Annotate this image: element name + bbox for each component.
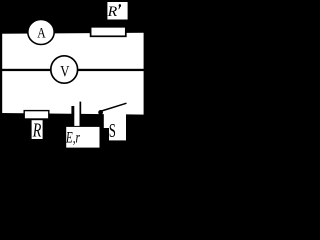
svg-text:R: R xyxy=(107,4,118,20)
wire: left vertical xyxy=(0,30,2,115)
battery E,r label box xyxy=(66,127,99,148)
svg-text:V: V xyxy=(60,63,70,80)
white figure background xyxy=(0,0,146,150)
switch S label box xyxy=(109,122,126,140)
switch lever xyxy=(100,103,126,111)
resistor R' body (top right, on top wire) xyxy=(91,27,126,37)
svg-text:A: A xyxy=(37,26,46,42)
switch pivot dot xyxy=(98,110,103,115)
resistor R label box xyxy=(32,120,43,139)
resistor R body (bottom left, on bottom wire) xyxy=(24,111,49,119)
resistor R' label box xyxy=(107,2,127,20)
ammeter A1 circle xyxy=(28,20,54,45)
svg-text:S: S xyxy=(109,120,116,142)
svg-text:R: R xyxy=(32,121,41,142)
top black band (merged with top wire) xyxy=(0,0,146,34)
resistor R' label apostrophe xyxy=(119,4,122,9)
battery short plate (negative) xyxy=(71,106,74,115)
switch S white gap xyxy=(104,110,126,128)
voltmeter V1 circle xyxy=(51,56,78,83)
svg-text:E,r: E,r xyxy=(65,129,80,146)
battery white notch between plates xyxy=(74,110,79,126)
wire: middle horizontal (voltmeter branch) xyxy=(0,69,146,71)
bottom black band (merged with bottom wire) xyxy=(0,113,146,150)
battery long plate (positive) xyxy=(80,102,82,127)
wire: right vertical xyxy=(144,30,146,116)
